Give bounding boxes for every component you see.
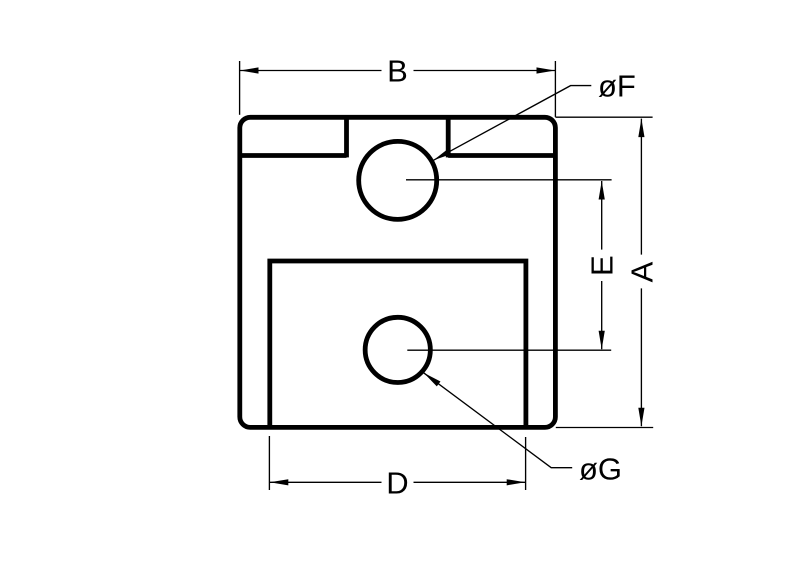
svg-text:B: B (387, 54, 408, 89)
svg-text:E: E (585, 255, 620, 276)
svg-text:øG: øG (579, 452, 622, 487)
svg-text:D: D (386, 466, 408, 501)
svg-text:øF: øF (598, 68, 636, 103)
svg-text:A: A (625, 261, 660, 282)
